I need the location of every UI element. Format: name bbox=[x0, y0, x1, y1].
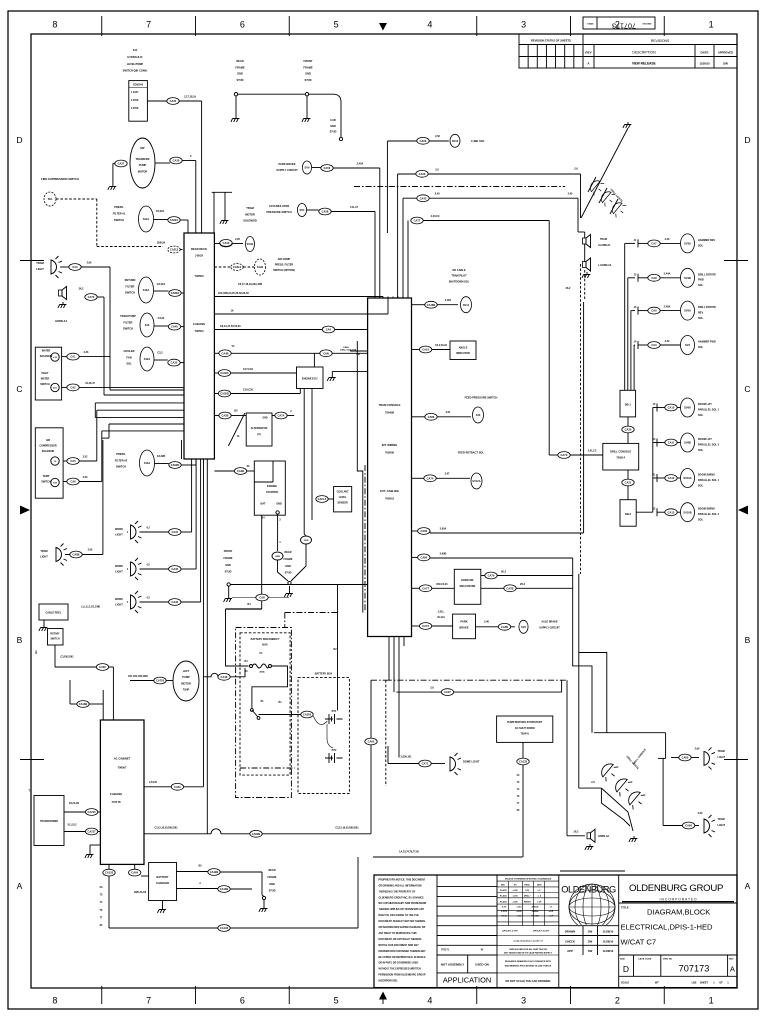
svg-text:SUPPLY CIRCUIT: SUPPLY CIRCUIT bbox=[539, 626, 560, 629]
svg-text:BT1: BT1 bbox=[332, 710, 337, 713]
svg-text:STUD: STUD bbox=[304, 78, 311, 82]
svg-text:NEW RELEASE: NEW RELEASE bbox=[632, 62, 655, 66]
svg-text:BATTERY BOX: BATTERY BOX bbox=[315, 673, 333, 676]
svg-text:CAN+: CAN+ bbox=[343, 346, 350, 349]
svg-text:SWITCH: SWITCH bbox=[125, 291, 135, 295]
svg-text:WATER: WATER bbox=[41, 377, 50, 380]
svg-text:SV5A: SV5A bbox=[684, 309, 691, 313]
svg-text:2,60: 2,60 bbox=[698, 812, 703, 815]
svg-text:OLDENBURG: OLDENBURG bbox=[561, 885, 616, 895]
svg-text:D: D bbox=[16, 135, 22, 145]
svg-text:C8,44,47,50,52,60: C8,44,47,50,52,60 bbox=[220, 325, 241, 328]
svg-text:TRANSFER: TRANSFER bbox=[135, 157, 149, 161]
svg-text:A: A bbox=[745, 881, 751, 891]
svg-text:ROTARY: ROTARY bbox=[50, 633, 60, 636]
svg-text:8: 8 bbox=[52, 996, 57, 1006]
svg-text:TRAM: TRAM bbox=[40, 550, 47, 553]
svg-text:SIZE: SIZE bbox=[620, 959, 625, 961]
svg-text:TRAM: TRAM bbox=[36, 261, 44, 265]
svg-text:OF: OF bbox=[719, 982, 723, 985]
svg-text:SWITCH-QIK CONN.: SWITCH-QIK CONN. bbox=[123, 69, 148, 73]
svg-text:GND: GND bbox=[269, 883, 275, 886]
svg-text:CA4: CA4 bbox=[326, 328, 332, 332]
svg-text:707171: 707171 bbox=[441, 949, 450, 952]
svg-text:ENGINE: ENGINE bbox=[267, 484, 277, 488]
svg-text:STUD: STUD bbox=[269, 890, 276, 893]
svg-text:THEREOF IMPLIES OR TRANSFERS A: THEREOF IMPLIES OR TRANSFERS ANY bbox=[379, 908, 425, 911]
svg-text:26,2: 26,2 bbox=[566, 287, 571, 290]
svg-text:2,40,C3: 2,40,C3 bbox=[431, 215, 440, 218]
svg-text:CA43: CA43 bbox=[420, 196, 427, 200]
svg-text:S5C: S5C bbox=[299, 208, 304, 212]
svg-text:CA77: CA77 bbox=[422, 586, 429, 590]
svg-text:HYDRAULIC: HYDRAULIC bbox=[127, 55, 142, 59]
svg-text:SOL: SOL bbox=[698, 519, 704, 522]
svg-text:CHECK: CHECK bbox=[565, 939, 575, 943]
svg-text:M2: M2 bbox=[140, 146, 144, 150]
svg-text:C5,2,5ALD: C5,2,5ALD bbox=[435, 344, 447, 347]
svg-text:UNLESS OTHERWISE SPECIFIED TOL: UNLESS OTHERWISE SPECIFIED TOLERANCES bbox=[505, 877, 552, 880]
svg-text:DATE: DATE bbox=[701, 51, 709, 55]
svg-text:CA02B: CA02B bbox=[252, 832, 261, 836]
svg-text:FRAME: FRAME bbox=[303, 65, 312, 69]
svg-text:CA37: CA37 bbox=[118, 162, 125, 166]
svg-text:SOL: SOL bbox=[698, 244, 704, 247]
svg-text:CA6: CA6 bbox=[70, 480, 76, 484]
svg-text:3 20V8: 3 20V8 bbox=[131, 108, 139, 110]
svg-text:SWITCH: SWITCH bbox=[123, 327, 133, 331]
svg-text:STARTER: STARTER bbox=[266, 490, 278, 494]
svg-text:G3,2A,PE: G3,2A,PE bbox=[69, 802, 80, 805]
svg-text:GND: GND bbox=[225, 564, 231, 567]
svg-text:2,6: 2,6 bbox=[430, 687, 434, 690]
svg-text:NOT ASSEMBLY: NOT ASSEMBLY bbox=[441, 963, 464, 967]
svg-text:CM: CM bbox=[356, 354, 360, 356]
svg-text:ANY TARGET AND IN ITS CAGE PAR: ANY TARGET AND IN ITS CAGE PARTIES ASPEC… bbox=[504, 952, 553, 955]
svg-text:2,60B: 2,60B bbox=[440, 553, 447, 556]
svg-text:SV2: SV2 bbox=[521, 625, 526, 629]
svg-text:INCORPORATED.: INCORPORATED. bbox=[379, 980, 399, 983]
svg-text:BOX: BOX bbox=[262, 644, 268, 647]
svg-text:INLET: INLET bbox=[42, 372, 49, 375]
svg-text:SWITCH: SWITCH bbox=[40, 383, 50, 386]
svg-text:SL1,SL2: SL1,SL2 bbox=[67, 825, 77, 827]
svg-text:PARALLEL SOL 1: PARALLEL SOL 1 bbox=[698, 408, 720, 411]
svg-text:SOLENOID: SOLENOID bbox=[42, 450, 55, 453]
svg-text:FAN: FAN bbox=[126, 355, 131, 359]
svg-text:PROPRIETARY NOTICE: THIS DOCUM: PROPRIETARY NOTICE: THIS DOCUMENT bbox=[379, 878, 426, 881]
svg-text:706499: 706499 bbox=[385, 411, 394, 415]
svg-text:RETURN: RETURN bbox=[125, 278, 136, 282]
svg-text:S15: S15 bbox=[145, 323, 150, 327]
svg-text:CA39: CA39 bbox=[419, 172, 426, 176]
svg-text:CON2042: CON2042 bbox=[133, 84, 144, 87]
svg-text:TRAM: TRAM bbox=[718, 818, 725, 821]
svg-text:CA213: CA213 bbox=[233, 265, 242, 269]
svg-text:BT2: BT2 bbox=[332, 749, 337, 752]
svg-text:OR IN PART, OR OTHERWISE USED: OR IN PART, OR OTHERWISE USED bbox=[379, 962, 419, 965]
svg-text:CA30: CA30 bbox=[223, 241, 230, 245]
svg-text:PARK: PARK bbox=[460, 620, 467, 624]
svg-text:FRONT: FRONT bbox=[304, 59, 313, 63]
svg-text:CA13B: CA13B bbox=[220, 887, 229, 891]
svg-text:2,S00,101: 2,S00,101 bbox=[401, 756, 413, 759]
svg-text:1A,73,74,76,77,95: 1A,73,74,76,77,95 bbox=[399, 851, 419, 854]
svg-text:USED ON: USED ON bbox=[475, 963, 489, 967]
svg-text:LUBE SOL: LUBE SOL bbox=[471, 139, 485, 143]
svg-text:(A): (A) bbox=[257, 433, 261, 436]
svg-text:LIGHT: LIGHT bbox=[115, 571, 123, 574]
svg-text:CA72: CA72 bbox=[422, 624, 429, 628]
svg-text:SOLENOID: SOLENOID bbox=[243, 219, 257, 223]
svg-text:CA7X: CA7X bbox=[561, 453, 568, 457]
svg-text:± UP: ± UP bbox=[537, 901, 542, 903]
svg-text:REV: REV bbox=[729, 959, 734, 961]
svg-text:COMPRESSOR: COMPRESSOR bbox=[39, 444, 57, 447]
svg-text:WT: WT bbox=[655, 982, 659, 985]
svg-text:DOCUMENT, SUBJECT MATTER THERE: DOCUMENT, SUBJECT MATTER THEREIN, bbox=[379, 920, 426, 923]
svg-text:2,40A: 2,40A bbox=[357, 163, 364, 166]
svg-text:LEVEL/TEMP: LEVEL/TEMP bbox=[127, 62, 144, 66]
svg-text:CA70: CA70 bbox=[88, 295, 95, 299]
svg-text:BATTERY DISCONNECT: BATTERY DISCONNECT bbox=[251, 638, 280, 641]
svg-text:FRAME: FRAME bbox=[224, 557, 233, 560]
svg-text:DRAWN: DRAWN bbox=[565, 930, 576, 934]
svg-text:75HP: 75HP bbox=[183, 688, 190, 692]
svg-text:DIAGRAM,BLOCK: DIAGRAM,BLOCK bbox=[647, 908, 710, 917]
svg-text:706504: 706504 bbox=[195, 329, 204, 333]
svg-text:X.XX: X.XX bbox=[502, 907, 507, 909]
svg-text:11/28/10: 11/28/10 bbox=[603, 930, 614, 934]
svg-text:OR INFORMATION SHOWN THEREON,: OR INFORMATION SHOWN THEREON, OR bbox=[379, 926, 426, 929]
svg-text:LBS: LBS bbox=[692, 982, 697, 985]
svg-text:CA213: CA213 bbox=[170, 248, 179, 252]
svg-text:SWITCH: SWITCH bbox=[41, 480, 51, 483]
svg-text:PARALLEL SOL 2: PARALLEL SOL 2 bbox=[698, 443, 720, 446]
svg-text:2,44A: 2,44A bbox=[664, 273, 671, 276]
svg-text:DESCRIPTION: DESCRIPTION bbox=[632, 51, 656, 55]
svg-text:APP: APP bbox=[567, 949, 573, 953]
svg-text:CA11: CA11 bbox=[668, 441, 675, 445]
svg-text:ALARM-A1: ALARM-A1 bbox=[598, 244, 611, 247]
svg-text:USED AS DATA FOR ALL PART RUN: USED AS DATA FOR ALL PART RUN ON bbox=[509, 948, 548, 951]
svg-text:D: D bbox=[744, 135, 750, 145]
svg-text:CA33C: CA33C bbox=[220, 371, 229, 375]
svg-text:2,60: 2,60 bbox=[88, 549, 93, 552]
svg-text:ENGINE ECU: ENGINE ECU bbox=[302, 378, 318, 381]
svg-text:C3,24: C3,24 bbox=[158, 317, 165, 320]
svg-text:GND: GND bbox=[330, 125, 336, 128]
svg-text:SV9: SV9 bbox=[305, 166, 310, 170]
svg-text:THEREON IS THE PROPERTY OF: THEREON IS THE PROPERTY OF bbox=[379, 891, 416, 893]
svg-text:11/28/10: 11/28/10 bbox=[603, 949, 614, 953]
svg-text:CA74: CA74 bbox=[427, 476, 434, 480]
svg-text:FRAME: FRAME bbox=[268, 876, 277, 879]
svg-text:.PLACE: .PLACE bbox=[499, 889, 507, 892]
svg-text:2,40: 2,40 bbox=[435, 193, 440, 196]
svg-text:1 20A7: 1 20A7 bbox=[131, 91, 139, 94]
svg-text:CA35D: CA35D bbox=[220, 392, 229, 396]
svg-text:SWITCH (OPTION): SWITCH (OPTION) bbox=[273, 269, 295, 272]
svg-text:4: 4 bbox=[427, 996, 432, 1006]
svg-text:C17,C18: C17,C18 bbox=[243, 368, 253, 371]
svg-text:SV10B: SV10B bbox=[683, 510, 691, 514]
svg-text:RELEASED DRAWING IN ACCORDANCE: RELEASED DRAWING IN ACCORDANCE WITH bbox=[505, 960, 551, 963]
svg-text:PUMP: PUMP bbox=[139, 163, 147, 167]
svg-text:706501: 706501 bbox=[385, 497, 394, 501]
svg-text:1: 1 bbox=[709, 20, 714, 30]
svg-text:FEED PRESSURE SWITCH: FEED PRESSURE SWITCH bbox=[465, 396, 498, 400]
svg-text:unclip rating data in auxilim: unclip rating data in auxilim TJ bbox=[513, 940, 542, 943]
svg-text:±.005: ±.005 bbox=[517, 911, 523, 913]
svg-text:FILTER: FILTER bbox=[124, 320, 133, 324]
svg-text:CA4B: CA4B bbox=[221, 351, 228, 355]
svg-text:CA753: CA753 bbox=[156, 679, 165, 683]
svg-text:CA133: CA133 bbox=[519, 760, 528, 764]
svg-text:ANY RIGHT TO REPRODUCE THIS: ANY RIGHT TO REPRODUCE THIS bbox=[379, 932, 418, 935]
svg-text:2,54,50: 2,54,50 bbox=[149, 781, 158, 784]
svg-text:7: 7 bbox=[146, 20, 151, 30]
svg-text:8: 8 bbox=[52, 20, 57, 30]
svg-text:CA1: CA1 bbox=[70, 355, 76, 359]
svg-text:±.010: ±.010 bbox=[513, 896, 519, 898]
svg-text:AIR COMP.: AIR COMP. bbox=[278, 258, 291, 261]
svg-text:CA84: CA84 bbox=[420, 556, 427, 560]
svg-text:TRAM: TRAM bbox=[600, 238, 607, 241]
svg-text:C3,17,18,19,20A,20B: C3,17,18,19,20A,20B bbox=[238, 283, 262, 286]
svg-text:2,41,C3: 2,41,C3 bbox=[588, 450, 597, 453]
svg-text:C3,22A: C3,22A bbox=[157, 283, 166, 286]
svg-text:BE COPIED OR REPRODUCED, IN WH: BE COPIED OR REPRODUCED, IN WHOLE bbox=[379, 957, 427, 959]
svg-text:.PLACE: .PLACE bbox=[499, 895, 507, 898]
svg-text:SOL: SOL bbox=[126, 362, 132, 366]
svg-text:ENCLOSURE: ENCLOSURE bbox=[460, 585, 476, 588]
svg-text:2,6: 2,6 bbox=[591, 781, 595, 784]
svg-text:WITHOUT THE EXPRESSED WRITTEN: WITHOUT THE EXPRESSED WRITTEN bbox=[379, 969, 422, 971]
svg-text:INT. WIRING: INT. WIRING bbox=[382, 443, 398, 447]
svg-text:26,2: 26,2 bbox=[574, 831, 579, 834]
svg-text:2,43: 2,43 bbox=[665, 238, 670, 241]
svg-text:HAMMER REV: HAMMER REV bbox=[698, 239, 715, 242]
svg-text:CA02D: CA02D bbox=[171, 463, 180, 467]
svg-text:WORK: WORK bbox=[115, 565, 123, 568]
svg-text:OLDENBURG GROUP INC. BY ADVAN: OLDENBURG GROUP INC. BY ADVANCE bbox=[379, 896, 425, 899]
svg-text:REVISION STATUS OF SHEETS: REVISION STATUS OF SHEETS bbox=[531, 39, 571, 43]
svg-text:AC SHUT DOWN: AC SHUT DOWN bbox=[515, 727, 535, 730]
svg-text:CA02: CA02 bbox=[99, 665, 106, 669]
svg-text:FRAC: FRAC bbox=[524, 884, 530, 887]
svg-text:C: C bbox=[16, 384, 22, 394]
svg-text:W/CAT C7: W/CAT C7 bbox=[621, 938, 657, 947]
svg-text:BRAKE: BRAKE bbox=[459, 626, 468, 630]
svg-text:LEFT: LEFT bbox=[183, 669, 190, 673]
svg-text:DEC: DEC bbox=[501, 885, 506, 887]
svg-text:PARK BRAKE: PARK BRAKE bbox=[278, 162, 295, 166]
svg-text:5: 5 bbox=[334, 20, 339, 30]
svg-text:DOME LIGHT: DOME LIGHT bbox=[463, 759, 480, 763]
svg-text:1B1,1B2,1B3,GND: 1B1,1B2,1B3,GND bbox=[128, 676, 148, 678]
svg-text:PRESSURE SWITCH: PRESSURE SWITCH bbox=[266, 210, 291, 214]
svg-text:APPROVED: APPROVED bbox=[718, 51, 733, 55]
svg-text:CA132: CA132 bbox=[220, 926, 229, 930]
svg-text:TRAM CONSOLE: TRAM CONSOLE bbox=[379, 403, 401, 407]
svg-text:TRAM PILOT: TRAM PILOT bbox=[451, 275, 467, 278]
svg-text:CA84: CA84 bbox=[685, 824, 692, 828]
svg-text:GND: GND bbox=[262, 418, 267, 420]
svg-text:GND: GND bbox=[285, 565, 291, 568]
svg-text:BOOM SWING: BOOM SWING bbox=[698, 508, 715, 511]
svg-text:SV4B: SV4B bbox=[684, 276, 691, 280]
svg-text:-: - bbox=[668, 981, 669, 985]
svg-text:CA31: CA31 bbox=[171, 530, 178, 534]
svg-text:706500: 706500 bbox=[385, 451, 394, 455]
svg-text:CA203: CA203 bbox=[303, 713, 312, 717]
svg-text:2,52: 2,52 bbox=[83, 455, 88, 458]
svg-text:CA32: CA32 bbox=[171, 567, 178, 571]
svg-text:CA33: CA33 bbox=[171, 600, 178, 604]
svg-text:WORK: WORK bbox=[115, 598, 123, 601]
svg-text:ENGINEERING PROCEDURES IN-LINE: ENGINEERING PROCEDURES IN-LINE STATUS bbox=[505, 965, 552, 968]
svg-text:±.002: ±.002 bbox=[517, 916, 523, 918]
svg-text:PRESS.: PRESS. bbox=[116, 452, 126, 456]
svg-text:DWG NO: DWG NO bbox=[663, 959, 673, 961]
svg-text:CA06: CA06 bbox=[420, 139, 427, 143]
svg-text:CA71: CA71 bbox=[422, 762, 429, 766]
svg-text:J-BOX: J-BOX bbox=[195, 254, 203, 258]
svg-text:CA19: CA19 bbox=[422, 348, 429, 352]
svg-text:700514: 700514 bbox=[616, 456, 625, 460]
svg-text:GND: GND bbox=[305, 72, 311, 76]
svg-text:CAN: CAN bbox=[323, 351, 329, 355]
svg-text:SV10A: SV10A bbox=[683, 476, 691, 480]
svg-text:26.2: 26.2 bbox=[520, 582, 526, 586]
svg-text:CA86A: CA86A bbox=[171, 291, 180, 295]
svg-text:SWITCH: SWITCH bbox=[116, 465, 126, 469]
svg-text:C3,15,16,50,D62,D61: C3,15,16,50,D62,D61 bbox=[154, 826, 178, 829]
svg-text:PERMISSION FROM OLDENBURG GROU: PERMISSION FROM OLDENBURG GROUP bbox=[379, 975, 426, 977]
svg-text:MOTOR: MOTOR bbox=[138, 169, 148, 173]
svg-text:REV: REV bbox=[585, 51, 591, 55]
svg-text:DRILL ROTATE: DRILL ROTATE bbox=[698, 306, 716, 309]
svg-text:SV16: SV16 bbox=[452, 139, 459, 143]
svg-text:REAR DECK: REAR DECK bbox=[191, 247, 207, 251]
svg-text:DB-2: DB-2 bbox=[625, 512, 632, 516]
svg-text:2,6: 2,6 bbox=[435, 168, 439, 171]
svg-text:5: 5 bbox=[334, 996, 339, 1006]
svg-text:2,6: 2,6 bbox=[574, 168, 578, 171]
svg-text:2,46: 2,46 bbox=[84, 351, 89, 354]
svg-text:TRANSFORMER: TRANSFORMER bbox=[40, 820, 58, 823]
svg-text:FILTER #2: FILTER #2 bbox=[115, 458, 128, 462]
svg-text:FINISH: FINISH bbox=[524, 901, 531, 903]
svg-text:SW: SW bbox=[588, 949, 593, 953]
svg-text:2,60: 2,60 bbox=[87, 262, 92, 265]
svg-text:COOLER: COOLER bbox=[123, 349, 134, 353]
svg-text:±.005: ±.005 bbox=[513, 901, 519, 903]
svg-text:SOL: SOL bbox=[698, 414, 704, 417]
svg-text:CA133: CA133 bbox=[105, 871, 114, 875]
svg-text:2,26: 2,26 bbox=[235, 238, 240, 241]
svg-text:CA9: CA9 bbox=[651, 309, 657, 313]
svg-text:PRESS.: PRESS. bbox=[114, 205, 124, 209]
svg-text:L-HORN-A2: L-HORN-A2 bbox=[598, 264, 612, 267]
svg-text:WATER: WATER bbox=[42, 350, 51, 353]
svg-text:706507: 706507 bbox=[118, 766, 127, 770]
svg-text:707173: 707173 bbox=[612, 22, 636, 31]
svg-text:2,061: 2,061 bbox=[445, 299, 452, 302]
svg-text:SWITCH: SWITCH bbox=[50, 639, 59, 641]
svg-text:FWD: FWD bbox=[698, 279, 704, 282]
svg-text:SHEET: SHEET bbox=[700, 982, 709, 985]
svg-text:GND,2A,D6: GND,2A,D6 bbox=[134, 891, 147, 894]
svg-text:ON DWG: ON DWG bbox=[642, 24, 652, 26]
svg-text:707173: 707173 bbox=[679, 964, 710, 974]
svg-text:MOTOR: MOTOR bbox=[245, 212, 255, 216]
svg-text:PUMP: PUMP bbox=[182, 675, 190, 679]
svg-text:ANGLE: ANGLE bbox=[459, 347, 468, 350]
svg-text:X.XXX: X.XXX bbox=[501, 911, 508, 913]
svg-text:LIGHT: LIGHT bbox=[718, 756, 726, 759]
svg-text:22A,50B,24,25,26,59,63,56: 22A,50B,24,25,26,59,63,56 bbox=[218, 292, 249, 295]
svg-text:2,50: 2,50 bbox=[83, 476, 88, 479]
svg-text:BAT: BAT bbox=[261, 503, 266, 506]
svg-text:SOL: SOL bbox=[698, 484, 704, 487]
svg-text:REAR: REAR bbox=[284, 551, 291, 554]
svg-text:GND: GND bbox=[275, 556, 280, 558]
svg-text:-: - bbox=[640, 981, 641, 985]
svg-text:CACL5: CACL5 bbox=[318, 497, 327, 501]
svg-text:B: B bbox=[745, 635, 751, 645]
svg-text:S01: S01 bbox=[48, 197, 53, 201]
svg-text:CA16B: CA16B bbox=[427, 303, 436, 307]
svg-text:TEMP: TEMP bbox=[43, 475, 50, 478]
svg-text:CA7B: CA7B bbox=[506, 586, 513, 590]
svg-text:CA45: CA45 bbox=[171, 325, 178, 329]
svg-text:SV1B: SV1B bbox=[247, 242, 254, 246]
svg-text:SOL: SOL bbox=[698, 346, 704, 349]
svg-text:CA8: CA8 bbox=[651, 276, 657, 280]
svg-text:2,40: 2,40 bbox=[484, 621, 489, 624]
svg-text:TITLE: TITLE bbox=[621, 906, 629, 910]
svg-text:DRILL°: DRILL° bbox=[524, 896, 531, 898]
svg-text:2,40: 2,40 bbox=[568, 193, 573, 196]
svg-text:GND: GND bbox=[276, 503, 282, 506]
svg-text:ACCUMULATOR: ACCUMULATOR bbox=[269, 204, 289, 208]
svg-text:ANGLE: ANGLE bbox=[532, 906, 540, 909]
svg-text:CA27: CA27 bbox=[444, 690, 451, 694]
svg-text:STUD: STUD bbox=[236, 78, 243, 82]
svg-text:NO FURTHER RECEIPT NOR POSSESS: NO FURTHER RECEIPT NOR POSSESSION bbox=[379, 903, 427, 905]
svg-text:LEVEL: LEVEL bbox=[339, 496, 347, 499]
svg-text:CABLE REEL: CABLE REEL bbox=[46, 612, 62, 615]
svg-text:CA02A: CA02A bbox=[170, 218, 179, 222]
svg-text:CA79: CA79 bbox=[488, 574, 495, 578]
svg-text:S10: S10 bbox=[476, 413, 481, 417]
svg-text:CA2: CA2 bbox=[70, 386, 76, 390]
svg-text:± 1°: ± 1° bbox=[538, 890, 542, 892]
svg-text:±.015: ±.015 bbox=[517, 907, 523, 909]
svg-text:CA85: CA85 bbox=[682, 756, 689, 760]
svg-text:CA10: CA10 bbox=[668, 406, 675, 410]
svg-text:DRILL CONSOLE: DRILL CONSOLE bbox=[610, 450, 631, 454]
svg-text:CAGE CODE: CAGE CODE bbox=[638, 958, 652, 961]
svg-text:LIGHT: LIGHT bbox=[36, 267, 44, 271]
svg-text:2,17,18,19: 2,17,18,19 bbox=[184, 96, 196, 99]
svg-text:C3,22B: C3,22B bbox=[157, 455, 166, 458]
svg-text:LIGHT: LIGHT bbox=[115, 604, 123, 607]
svg-text:A: A bbox=[17, 881, 23, 891]
svg-text:CA62: CA62 bbox=[368, 740, 375, 744]
